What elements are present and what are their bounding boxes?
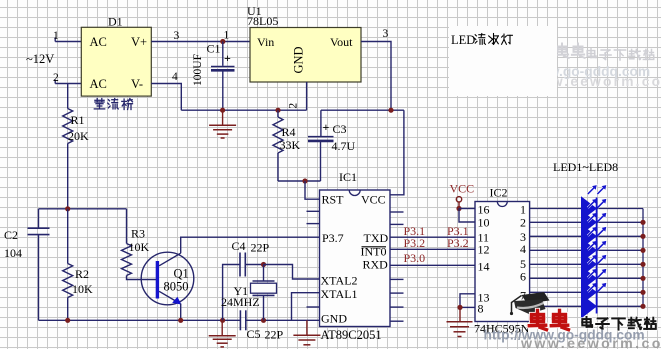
pin number 1 [53,30,59,42]
svg-text:P3.2: P3.2 [404,236,426,250]
svg-text:10K: 10K [72,282,93,296]
resistor R1 [63,84,89,209]
label LED1~LED8 [553,160,618,174]
svg-text:6: 6 [520,270,526,284]
ground symbol at IC1 GND [293,320,320,345]
svg-text:1: 1 [224,30,230,42]
label AT89C2051 [321,328,382,342]
wire LED cathode bus [642,209,644,307]
resistor R4 33K [273,110,301,181]
VCC power port [450,182,475,209]
junction R2 bottom [65,318,70,323]
wire +5V rail [321,109,404,111]
wire Q1 collector to P3.7 [181,237,320,253]
svg-text:22P: 22P [251,241,270,255]
wire IC2 pin13 to pin8 [460,294,475,308]
svg-text:LED1~LED8: LED1~LED8 [553,160,618,174]
junction IC2 ground node [457,305,462,310]
voltage regulator U1 78L05 [247,4,361,82]
pin number 2 [53,72,59,84]
label 整流桥 (rectifier bridge) [94,99,132,110]
svg-text:R1: R1 [71,113,85,127]
svg-text:C3: C3 [333,122,347,136]
svg-text:P3.7: P3.7 [322,231,344,245]
LED7 [530,269,643,305]
net label P3.1 at IC2 [447,224,469,238]
LED cathode bar line [596,198,598,314]
svg-text:TXD: TXD [364,231,389,245]
junction C4/Y1/XTAL2 node [261,262,266,267]
bridge rectifier D1 [81,15,151,97]
svg-text:AC: AC [90,35,107,49]
svg-text:GND: GND [321,312,347,326]
net label P3.1 [404,224,426,238]
svg-text:8050: 8050 [164,280,189,294]
junction LED bus [640,304,645,309]
junction LED bus [640,262,645,267]
wire P3.1 (TXD to IC2 pin11) [390,236,475,238]
junction Y1/C5 node [261,318,266,323]
pin number 3 (U1 Vout) [383,28,389,40]
wire P3.0 (RXD to IC2 pin14) [390,264,475,266]
wire P3.2 (INT0 to IC2 pin12) [390,248,475,250]
wire XTAL1 [292,293,320,321]
svg-text:R4: R4 [282,125,296,139]
svg-text:4: 4 [520,242,526,256]
net label P3.2 at IC2 [447,236,469,250]
svg-text:24MHZ: 24MHZ [221,295,260,309]
svg-text:P3.0: P3.0 [404,251,426,265]
wire bottom rail right of C5 to IC1 GND [246,319,320,321]
LED2 [530,199,643,235]
watermark eeworm url [520,336,661,349]
capacitor C3 4.7U [308,110,356,181]
svg-text:4: 4 [172,71,178,83]
wire VCC to IC2 pin16 [459,208,475,210]
watermark 电子下载站 [582,317,656,330]
net label P3.2 [404,236,426,250]
LED4 [530,227,643,263]
watermark graduation cap logo [510,292,550,315]
svg-text:LED: LED [451,33,475,47]
svg-text:RST: RST [322,193,345,207]
svg-text:1: 1 [53,30,59,42]
watermark 虫虫 red characters [529,310,568,329]
junction R1/R2/C2/R3 node [65,206,70,211]
wire D1 V- to ground rail [151,84,181,111]
svg-text:Q1: Q1 [174,267,189,281]
label 74HC595N [474,322,530,336]
svg-text:C1: C1 [207,42,221,56]
junction Q1 emitter [178,318,183,323]
resistor R2 [63,209,93,320]
svg-text:100UF: 100UF [192,54,204,86]
svg-text:V+: V+ [131,35,147,49]
capacitor C2 [4,209,50,320]
svg-text:VCC: VCC [450,182,475,196]
capacitor C4 22P [223,239,270,320]
wire ground rail top (D1 V- / C1 / R4 / U1 GND) [181,109,306,111]
svg-text:3: 3 [174,30,180,42]
wire R4/C3 to RST [278,180,321,182]
wire IC2 pin8 to ground [460,306,475,308]
svg-text:www.eeworm.com: www.eeworm.com [520,336,661,349]
wire +5V to IC1 VCC pin [390,110,404,195]
LED3 [530,213,643,249]
svg-text:C4: C4 [232,239,246,253]
svg-text:Vout: Vout [330,35,353,49]
wire bottom ground rail left [39,319,241,321]
junction R4 top [275,108,280,113]
svg-text:20K: 20K [68,129,89,143]
junction LED bus [640,276,645,281]
shift register IC2 74HC595N [475,186,530,322]
LED1 [530,185,643,221]
svg-text:XTAL2: XTAL2 [321,274,358,288]
junction RST node [302,178,307,183]
svg-text:14: 14 [478,260,490,274]
svg-text:2: 2 [53,72,59,84]
wire XTAL2 [264,265,320,280]
pin number 4 [172,71,178,83]
junction C1 top / Vin node [220,39,225,44]
microcontroller IC1 AT89C2051 [320,170,391,327]
wire Q1 emitter to ground rail [180,304,182,321]
ground symbol at IC2 [447,307,473,336]
wire U1 Vout to +5V node [361,42,391,111]
svg-text:12: 12 [478,243,490,257]
junction VCC node [456,206,461,211]
svg-text:AC: AC [90,77,107,91]
junction C1 bottom ground [220,108,225,113]
svg-text:16: 16 [478,203,490,217]
resistor R3 [122,209,157,280]
svg-text:IC1: IC1 [339,170,357,184]
label ~12V [26,52,54,66]
junction Vout/+5V [388,108,393,113]
svg-text:2: 2 [288,103,300,109]
svg-text:3: 3 [383,28,389,40]
watermark go-gddq url [484,328,645,343]
title LED流水灯 [451,33,512,47]
wire mid node horizontal [39,208,127,210]
svg-text:~12V: ~12V [26,52,54,66]
capacitor C5 22P [240,310,283,341]
IC1 unconnected left pins [307,211,320,307]
svg-text:1: 1 [520,203,526,217]
svg-text:+: + [323,120,330,134]
net label P3.0 [404,251,426,265]
pin number 3 [174,30,180,42]
junction LED bus [640,234,645,239]
wire to RST pin [305,181,320,199]
svg-text:4.7U: 4.7U [332,139,356,153]
svg-text:V-: V- [131,77,143,91]
crystal Y1 24MHZ [221,265,277,321]
svg-text:R2: R2 [75,267,89,281]
wire D1 V+ to U1 Vin [151,41,250,43]
svg-text:22P: 22P [265,328,284,342]
svg-text:R3: R3 [131,227,145,241]
svg-text:AT89C2051: AT89C2051 [321,328,382,342]
svg-text:78L05: 78L05 [247,14,278,28]
svg-text:+: + [224,51,231,65]
svg-text:RXD: RXD [363,258,389,272]
svg-text:33K: 33K [280,138,301,152]
LED5 [530,241,643,277]
svg-text:10: 10 [478,216,490,230]
IC1 unconnected right pins [390,212,404,321]
pin number 1 (U1 Vin) [224,30,230,42]
wire AC input pin 1 [55,38,81,42]
svg-text:GND: GND [292,46,306,73]
ground symbol below rail [209,320,236,347]
svg-text:C5: C5 [247,327,261,341]
junction LED bus [640,220,645,225]
svg-text:D1: D1 [108,15,123,29]
pin number 2 (U1 GND) rotated [288,103,300,109]
svg-text:XTAL1: XTAL1 [321,287,358,301]
wire U1 GND pin down [306,82,308,110]
svg-text:C2: C2 [4,228,18,242]
junction C4 ground leg [220,318,225,323]
LED8 [530,283,643,319]
junction LED bus [640,290,645,295]
svg-text:8: 8 [478,302,484,316]
svg-text:IC2: IC2 [490,186,508,200]
svg-text:104: 104 [4,246,22,260]
svg-text:VCC: VCC [361,193,386,207]
LED6 [530,255,643,291]
wire VCC to IC2 pin10 [459,209,475,223]
svg-text:P3.2: P3.2 [447,236,469,250]
svg-text:10K: 10K [129,240,150,254]
capacitor C1 100UF [192,42,235,111]
ground symbol below C1 [209,110,236,138]
svg-text:Vin: Vin [257,35,274,49]
transistor Q1 8050 [141,252,194,305]
wire AC input pin 2 [55,80,81,84]
svg-text:2: 2 [520,216,526,230]
junction LED bus [640,248,645,253]
